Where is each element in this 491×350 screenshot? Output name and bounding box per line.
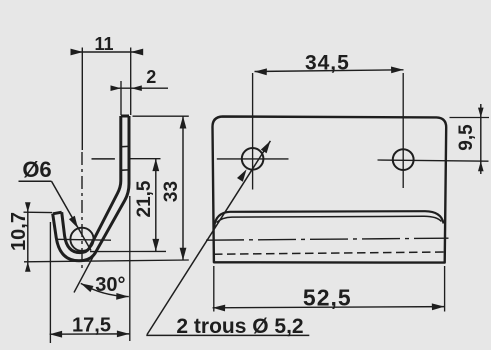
- left view: hidden hole edge ticks on strip: [120, 146, 130, 170]
- dimension 34,5: [254, 52, 403, 76]
- left view: hook profile outline: [53, 116, 129, 261]
- svg-text:33: 33: [161, 181, 182, 202]
- dimension 17,5: [50, 222, 130, 343]
- hole right: [378, 73, 489, 188]
- svg-text:21,5: 21,5: [134, 180, 155, 217]
- svg-text:10,7: 10,7: [8, 212, 30, 251]
- right view: bend tangent lines: [214, 211, 443, 227]
- dimension 10,7: [8, 202, 52, 272]
- label D6 with leader: [19, 157, 92, 251]
- vertical centerline of hook: [81, 48, 83, 271]
- right view: bend axis centerline: [206, 238, 449, 240]
- label 2 trous D5,2 with leader: [146, 141, 309, 338]
- svg-text:9,5: 9,5: [456, 124, 477, 151]
- dimension 11: [71, 34, 144, 115]
- circle D6 (rod in hook): [56, 228, 111, 251]
- svg-text:52,5: 52,5: [303, 285, 352, 311]
- left view: hole axis dash left of strip: [92, 158, 115, 160]
- right view: hidden edge dashed line: [214, 252, 444, 254]
- dimension 30 deg: [74, 196, 130, 341]
- dimension 21,5: [90, 159, 166, 252]
- svg-text:2 trous Ø 5,2: 2 trous Ø 5,2: [176, 315, 303, 338]
- hole left: [217, 73, 289, 190]
- svg-text:34,5: 34,5: [305, 52, 350, 75]
- dimension 2: [111, 67, 169, 115]
- svg-text:11: 11: [94, 34, 113, 54]
- svg-text:30°: 30°: [95, 274, 125, 296]
- svg-text:Ø6: Ø6: [22, 157, 51, 182]
- svg-text:2: 2: [146, 67, 156, 87]
- dimension 33: [24, 116, 189, 262]
- svg-text:17,5: 17,5: [72, 315, 111, 337]
- right view: plate outline: [212, 117, 446, 263]
- dimension 52,5: [213, 266, 445, 312]
- dimension 9,5: [450, 104, 490, 174]
